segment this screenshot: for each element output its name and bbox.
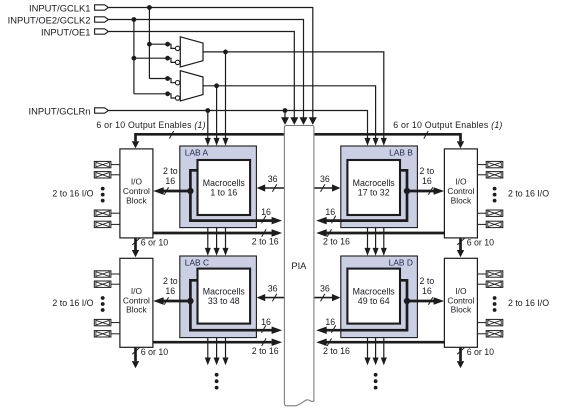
arrow 2 to 16 into PIA [272,229,283,237]
svg-text:2 to 16 I/O: 2 to 16 I/O [508,298,549,308]
svg-text:36: 36 [268,283,278,293]
wire mux U1 output [203,52,384,139]
arrow 2 to 16 into I/O control block [153,187,164,195]
io cell pin left [94,331,111,337]
bubble mux2 lower [175,96,179,100]
io cell pin left [94,172,111,178]
io cell pin left [94,161,111,167]
arrow into LAB C [205,248,211,256]
svg-text:2 to 16: 2 to 16 [252,346,279,356]
svg-text:6 or 10: 6 or 10 [467,238,494,248]
PIA block [284,126,314,406]
macrocell box 49 to 64 [347,269,400,324]
slash 6 or 10 left bottom [132,347,139,354]
svg-text:2 to 16 I/O: 2 to 16 I/O [52,298,93,308]
io cell pin left [94,281,111,287]
arrow OE1 into PIA [290,117,298,125]
svg-text:LAB C: LAB C [185,257,209,267]
arrow below LAB D [373,358,379,366]
wire io cell stub [111,174,120,176]
arrow U2 output into LAB B [373,138,379,146]
svg-text:33 to 48: 33 to 48 [208,296,240,306]
io cell pin right [486,281,503,287]
wire mux2 lower input [134,94,176,98]
slash 16 to PIA [262,325,266,333]
bus macrocell to PIA (16) [190,170,275,220]
wire io cell stub [111,333,120,335]
slash 2 to 16 bar [327,229,331,237]
pin INPUT/OE1 [95,29,109,34]
slash 6 or 10 right bottom [457,347,464,354]
io cell pin left [94,221,111,227]
svg-text:16: 16 [261,317,271,327]
arrow GCLRn into LAB B [364,138,370,146]
svg-text:17 to 32: 17 to 32 [358,187,390,197]
svg-text:2 to 16: 2 to 16 [323,346,350,356]
wire 36 from PIA [264,187,284,189]
slash 2 to 16 bar [262,229,266,237]
slash 36 [321,184,325,192]
svg-text:2 to 16: 2 to 16 [252,237,279,247]
svg-text:2 to 16: 2 to 16 [323,237,350,247]
junction GCLRn to PIA [283,108,288,113]
ellipsis io cells [101,187,105,191]
wire global signal LAB B to LAB D [375,228,377,250]
LAB block LAB C [180,256,257,338]
junction GCLRn to LAB A [205,108,210,113]
arrow 2 to 16 into PIA [316,229,327,237]
wire U2 output drop to LAB A [216,86,218,139]
svg-text:6 or 10: 6 or 10 [141,347,168,357]
wire global signal below LAB C [207,338,209,359]
arrow 16 into PIA [272,217,283,225]
svg-text:16: 16 [422,286,432,296]
wire io cell stub [477,174,486,176]
svg-text:16: 16 [261,207,271,217]
arrow into LAB C [214,248,220,256]
arrow into LAB D [381,248,387,256]
wire GCLK2 feed vertical [133,20,135,94]
wire GCLRn drop to LAB A [207,111,209,140]
arrow 36 into LAB [257,184,266,191]
junction GCLK2 branch [132,17,137,22]
arrow GCLK1 into PIA [309,117,317,125]
bus LAB to I/O control (2 to 16) [407,300,437,303]
wire io cell stub [111,223,120,225]
wire global signal LAB B to LAB D [367,228,369,250]
wire io cell stub [111,322,120,324]
arrow U1 output into LAB B [381,138,387,146]
junction bus branch [187,298,193,304]
wire global signal below LAB D [367,338,369,359]
arrow 6 or 10 into bottom-left I/O block [132,250,139,257]
svg-text:16: 16 [165,286,175,296]
svg-text:6 or 10 Output Enables (1): 6 or 10 Output Enables (1) [96,120,205,130]
bus 6 or 10 left mid [134,238,137,250]
wire io cell stub [477,333,486,335]
LAB block LAB A [180,146,257,228]
junction mux1 lower feed [132,56,137,61]
slash output-enable right [424,131,428,139]
arrow 2 to 16 into PIA [272,338,283,346]
wire OE1 [108,32,294,119]
svg-text:2 to: 2 to [420,166,435,176]
wire 36 from PIA [264,297,284,299]
I/O control block top-left [120,149,153,238]
wire io cell stub [111,212,120,214]
bus macrocell to PIA (16) [323,280,407,330]
wire global signal below LAB D [383,338,385,359]
wire 36 from PIA [314,297,333,299]
bus I/O to PIA (2 to 16) [323,341,444,344]
wire io cell stub [477,164,486,166]
LAB block LAB B [341,146,418,228]
arrow GCLRn into LAB A [205,138,211,146]
arrow 6 or 10 right bottom [457,361,464,368]
io cell pin right [486,221,503,227]
wire global signal LAB A to LAB C [207,228,209,250]
arrow below LAB C [222,358,228,366]
io cell pin right [486,161,503,167]
svg-text:6 or 10: 6 or 10 [141,238,168,248]
bubble mux1 upper [175,46,179,50]
svg-text:Macrocells: Macrocells [203,286,246,296]
ellipsis below LAB D [374,373,378,377]
LAB block LAB D [341,256,418,338]
io cell pin right [486,331,503,337]
svg-text:Macrocells: Macrocells [353,286,396,296]
junction U2 output to LAB A [214,83,219,88]
svg-text:PIA: PIA [291,260,307,271]
macrocell box 33 to 48 [198,269,251,324]
arrow below LAB C [205,358,211,366]
bus I/O to PIA (2 to 16) [153,341,275,344]
pin INPUT/GCLRn [95,108,109,113]
svg-text:2 to: 2 to [163,166,178,176]
arrow below LAB D [364,358,370,366]
macrocell box 17 to 32 [347,160,400,215]
junction mux1 lower input dot [165,56,170,61]
slash 36 [272,184,276,192]
mux U1 [180,37,203,67]
junction bus branch [404,298,410,304]
svg-text:Block: Block [126,305,147,315]
bus macrocell to PIA (16) [190,280,275,330]
io cell pin left [94,271,111,277]
svg-text:36: 36 [320,174,330,184]
svg-text:2 to 16 I/O: 2 to 16 I/O [508,189,549,199]
svg-text:INPUT/OE2/GCLK2: INPUT/OE2/GCLK2 [8,14,91,25]
arrow 6 or 10 into bottom-right I/O block [457,250,464,257]
svg-text:INPUT/GCLK1: INPUT/GCLK1 [29,2,90,13]
arrow 36 into LAB [332,294,341,301]
wire io cell stub [477,283,486,285]
slash 2 to 16 [164,297,168,305]
mux U2 [180,71,203,101]
ellipsis io cells [493,296,497,300]
svg-text:Macrocells: Macrocells [353,178,396,188]
arrow 6 or 10 left bottom [132,361,139,368]
macrocell box 1 to 16 [198,160,251,215]
slash 36 [321,294,325,302]
I/O control block bottom-left [120,258,153,347]
bus LAB to I/O control (2 to 16) [407,190,437,193]
svg-text:2 to: 2 to [420,276,435,286]
svg-text:16: 16 [325,317,335,327]
arrow 16 into PIA [272,326,283,334]
bus I/O to PIA (2 to 16) [153,232,275,235]
arrow U2 output into LAB A [214,138,220,146]
wire io cell stub [111,283,120,285]
pin INPUT/OE2/GCLK2 [95,17,109,22]
svg-text:16: 16 [422,176,432,186]
bubble mux1 lower [175,60,179,64]
arrow GCLRn into PIA [281,117,289,125]
wire global signal below LAB C [216,338,218,359]
svg-text:LAB B: LAB B [389,147,413,157]
wire output-enable bus right segment [314,134,460,141]
svg-text:16: 16 [325,207,335,217]
io cell pin right [486,319,503,325]
I/O control block top-right [444,149,477,238]
svg-text:INPUT/GCLRn: INPUT/GCLRn [29,105,91,116]
wire io cell stub [477,322,486,324]
io cell pin right [486,210,503,216]
arrow into LAB D [373,248,379,256]
bubble mux2 upper [175,81,179,85]
slash 16 to PIA [331,216,335,224]
svg-text:49 to 64: 49 to 64 [358,296,390,306]
arrow output-enable into right I/O control block [457,141,464,148]
svg-text:Block: Block [451,305,472,315]
arrow 2 to 16 into I/O control block [434,187,445,195]
wire mux1 upper input [149,44,175,48]
svg-text:6 or 10: 6 or 10 [467,347,494,357]
svg-text:36: 36 [320,283,330,293]
wire GCLK1 feed vertical [148,8,150,79]
wire U1 output drop to LAB A [225,52,227,139]
arrow below LAB D [381,358,387,366]
junction mux1 upper input dot [165,42,170,47]
I/O control block bottom-right [444,258,477,347]
arrow into LAB D [364,248,370,256]
arrow GCLK2 into PIA [300,117,308,125]
svg-text:Macrocells: Macrocells [203,178,246,188]
wire output-enable bus left segment [136,134,284,141]
svg-text:LAB A: LAB A [185,147,209,157]
io cell pin left [94,210,111,216]
wire mux2 upper input [149,79,175,83]
wire GCLK1 [108,8,312,119]
arrow into LAB C [222,248,228,256]
junction bus branch [404,188,410,194]
arrow 2 to 16 into PIA [316,338,327,346]
wire io cell stub [477,273,486,275]
wire global signal LAB A to LAB C [225,228,227,250]
io cell pin right [486,172,503,178]
ellipsis below LAB C [215,373,219,377]
junction bus branch [187,188,193,194]
junction mux2 lower input dot [165,91,170,96]
svg-text:Block: Block [126,195,147,205]
io cell pin right [486,271,503,277]
svg-text:16: 16 [165,176,175,186]
slash output-enable left [169,131,173,139]
pin INPUT/GCLK1 [95,5,109,10]
arrow 2 to 16 into I/O control block [434,297,445,305]
wire io cell stub [477,223,486,225]
wire GCLRn drop to PIA [284,111,286,119]
arrow output-enable into left I/O control block [132,141,139,148]
arrow below LAB C [214,358,220,366]
svg-text:LAB D: LAB D [389,257,413,267]
svg-text:Block: Block [451,195,472,205]
wire global signal below LAB C [225,338,227,359]
svg-text:2 to 16 I/O: 2 to 16 I/O [52,189,93,199]
bus LAB to I/O control (2 to 16) [160,300,190,303]
slash 2 to 16 bar [262,338,266,346]
svg-text:1 to 16: 1 to 16 [210,187,237,197]
ellipsis io cells [101,296,105,300]
junction mux2 upper input dot [165,76,170,81]
io cell pin left [94,319,111,325]
wire io cell stub [111,164,120,166]
slash 16 to PIA [331,325,335,333]
bus 6 or 10 right bottom [459,347,462,361]
wire io cell stub [477,212,486,214]
wire mux1 lower input [134,58,176,62]
slash 2 to 16 bar [327,338,331,346]
wire GCLRn [108,111,367,140]
bus macrocell to PIA (16) [323,170,407,220]
bus 6 or 10 right mid [459,238,462,250]
wire 36 from PIA [314,187,333,189]
svg-text:36: 36 [268,174,278,184]
slash 2 to 16 [428,297,432,305]
wire mux U2 output [203,86,376,139]
svg-text:2 to: 2 to [163,276,178,286]
bus I/O to PIA (2 to 16) [323,232,444,235]
svg-text:6 or 10 Output Enables (1): 6 or 10 Output Enables (1) [393,120,502,130]
wire global signal LAB A to LAB C [216,228,218,250]
slash 2 to 16 [428,187,432,195]
slash 6 or 10 left mid [132,238,139,245]
ellipsis io cells [493,187,497,191]
arrow 16 into PIA [316,217,327,225]
bus 6 or 10 left bottom [134,347,137,361]
arrow 16 into PIA [316,326,327,334]
wire global signal LAB B to LAB D [383,228,385,250]
slash 2 to 16 [164,187,168,195]
slash 16 to PIA [262,216,266,224]
arrow 2 to 16 into I/O control block [153,297,164,305]
arrow 36 into LAB [257,294,266,301]
arrow U1 output into LAB A [222,138,228,146]
bus LAB to I/O control (2 to 16) [160,190,190,193]
arrow 36 into LAB [332,184,341,191]
junction mux1 upper feed [147,42,152,47]
wire io cell stub [111,273,120,275]
slash 36 [272,294,276,302]
wire global signal below LAB D [375,338,377,359]
slash 6 or 10 right mid [457,238,464,245]
svg-text:INPUT/OE1: INPUT/OE1 [41,26,91,37]
wire GCLK2 [108,20,303,119]
junction U1 output to LAB A [223,50,228,55]
junction GCLK1 branch [147,5,152,10]
